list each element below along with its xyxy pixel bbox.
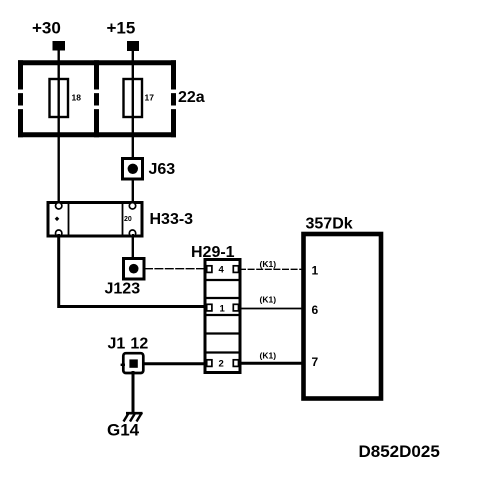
- junction J123 box: [124, 259, 145, 280]
- svg-text:(K1): (K1): [260, 259, 277, 269]
- connector H33-3 right divider: [122, 203, 124, 237]
- fuse box 22a middle dashed divider: [94, 60, 99, 137]
- svg-text:J63: J63: [149, 161, 176, 178]
- junction J63 box: [123, 159, 143, 180]
- H29-1 pin 1 contact right: [233, 304, 238, 311]
- svg-text:2: 2: [219, 359, 224, 370]
- wire J63 to H33-3: [132, 178, 134, 204]
- svg-text:22a: 22a: [178, 89, 205, 106]
- ground G14 hatch 2: [130, 413, 136, 422]
- H29-1 pin 4 contact left: [207, 266, 212, 273]
- wire +15 terminal to J63 through fuse 17: [132, 51, 134, 161]
- svg-text:7: 7: [312, 355, 319, 369]
- svg-text:(K1): (K1): [260, 351, 277, 361]
- H29-1 divider 3: [205, 314, 240, 316]
- svg-text:6: 6: [312, 303, 319, 317]
- ground G14 hatch 3: [137, 413, 143, 422]
- svg-text:357Dk: 357Dk: [306, 216, 353, 233]
- wire J1-12 to H29-1 pin 2: [143, 362, 206, 365]
- H33-3 pin circle top-right: [129, 203, 135, 209]
- wire H33-3 left to H29-1 pin 1: [59, 234, 206, 307]
- terminal +15: [127, 41, 139, 51]
- connector J1 pin 12 box: [123, 353, 143, 373]
- connector H33-3 body: [48, 203, 142, 237]
- wire H29-1 pin 4 to 357Dk pin 1: [239, 268, 305, 270]
- H33-3 diamond mark: [55, 217, 60, 222]
- fuse box 22a outline top: [18, 60, 176, 65]
- fuse box 22a outline bottom: [18, 132, 176, 137]
- svg-text:G14: G14: [107, 421, 140, 440]
- ECU 357Dk body: [304, 234, 382, 399]
- wire H29-1 pin 2 to 357Dk pin 7: [239, 362, 305, 365]
- wire H29-1 pin 1 to 357Dk pin 6: [239, 308, 305, 310]
- connector H29-1 body: [205, 260, 240, 373]
- H29-1 divider 5: [205, 351, 240, 353]
- junction J63 dot: [128, 164, 138, 174]
- svg-text:1: 1: [220, 304, 226, 315]
- svg-text:+15: +15: [107, 19, 136, 38]
- connector J1 tick: [121, 364, 125, 366]
- wire H33-3 right to J123: [132, 234, 134, 260]
- H33-3 pin circle top-left: [56, 203, 62, 209]
- H29-1 divider 4: [205, 332, 240, 334]
- svg-text:18: 18: [72, 93, 82, 103]
- wire J123 to H29-1 pin 4: [144, 268, 206, 270]
- ground G14 hatch 1: [124, 413, 130, 422]
- svg-text:17: 17: [145, 93, 155, 103]
- svg-text:H33-3: H33-3: [150, 211, 194, 228]
- fuse box 22a left dashed side: [18, 60, 23, 137]
- svg-text:(K1): (K1): [260, 295, 277, 305]
- ground G14 bar: [126, 412, 143, 415]
- svg-text:1: 1: [312, 264, 319, 278]
- H29-1 divider 2: [205, 297, 240, 299]
- H29-1 pin 2 contact right: [233, 360, 238, 367]
- H29-1 divider 1: [205, 279, 240, 281]
- terminal +30: [53, 41, 66, 51]
- connector J1 contact square: [129, 359, 137, 367]
- svg-text:J123: J123: [105, 281, 141, 298]
- svg-text:D852D025: D852D025: [359, 442, 440, 461]
- H29-1 pin 4 contact right: [233, 266, 238, 273]
- fuse 17: [124, 79, 143, 117]
- wire J1-12 to ground: [132, 371, 135, 413]
- H29-1 pin 1 contact left: [207, 304, 212, 311]
- svg-text:+30: +30: [32, 19, 61, 38]
- connector H33-3 left divider: [68, 203, 70, 237]
- wire +30 terminal to H33-3 through fuse 18: [58, 50, 60, 204]
- H29-1 pin 2 contact left: [207, 360, 212, 367]
- fuse box 22a right dashed side: [171, 60, 176, 137]
- junction J123 dot: [129, 264, 139, 274]
- svg-text:20: 20: [124, 216, 132, 223]
- fuse 18: [50, 79, 69, 117]
- H33-3 pin circle bottom-right: [129, 230, 135, 236]
- svg-text:4: 4: [219, 265, 225, 276]
- H33-3 pin circle bottom-left: [56, 230, 62, 236]
